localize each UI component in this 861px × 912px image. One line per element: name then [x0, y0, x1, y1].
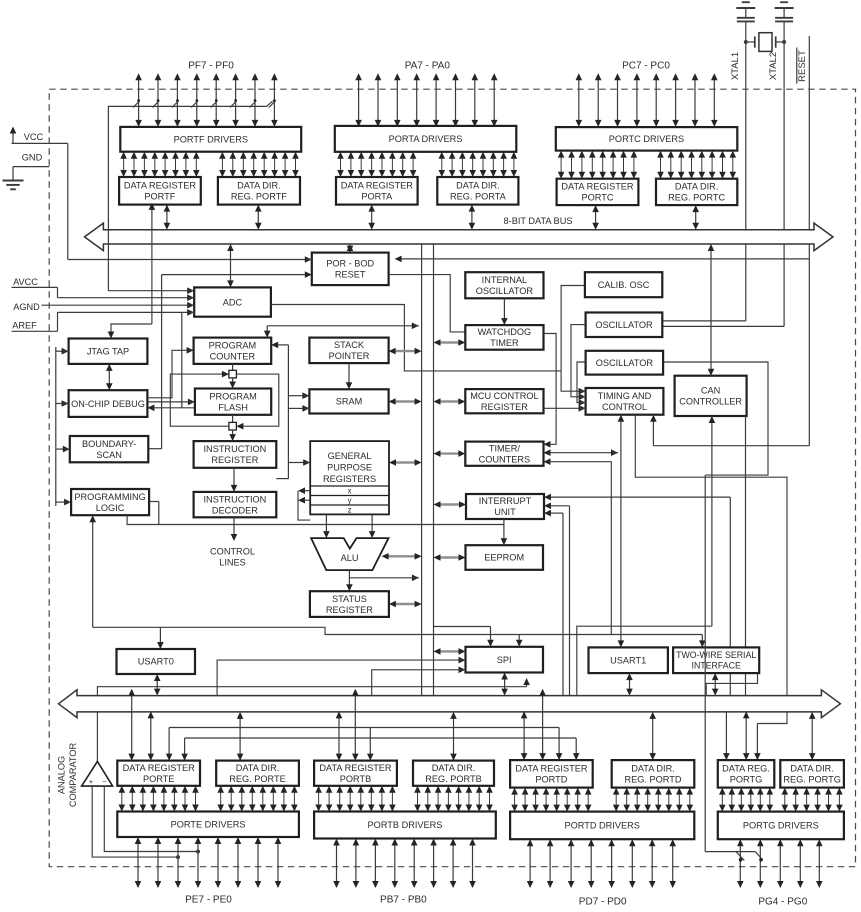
wire bus to data dir reg PORTB	[450, 712, 457, 761]
wire CAN controller to data bus	[745, 416, 747, 696]
POR-BOD reset	[312, 253, 389, 286]
data register PORTC	[557, 179, 639, 205]
svg-text:REGISTER: REGISTER	[326, 605, 373, 615]
svg-text:PG4 - PG0: PG4 - PG0	[758, 897, 807, 908]
wire XTAL2 to oscillator	[662, 42, 784, 326]
svg-text:MCU CONTROL: MCU CONTROL	[470, 391, 538, 401]
wire data bus to CAN controller serial	[577, 416, 715, 696]
wire serial control line (programming logic to CAN)	[93, 627, 706, 647]
SRAM	[309, 389, 388, 413]
data dir reg PORTF	[218, 177, 300, 205]
wire CPU internal bus right	[433, 244, 435, 696]
svg-text:REGISTERS: REGISTERS	[323, 474, 376, 484]
svg-text:AGND: AGND	[13, 302, 40, 312]
status register	[310, 591, 389, 617]
wire interrupt unit to cpu bus	[434, 501, 467, 508]
wire watchdog to timer/counters	[544, 334, 557, 448]
wire GPR to ALU inputs	[323, 514, 375, 538]
capacitor on XTAL2	[775, 2, 794, 42]
wire cpu bus to SPI top	[434, 627, 494, 647]
wire on-chip debug to program flash	[147, 399, 195, 406]
node PF7-PF0	[188, 60, 234, 71]
wire MCU control register to cpu bus	[434, 398, 466, 405]
wire PB pins	[333, 839, 476, 889]
wire VCC to POR-BOD	[67, 143, 69, 259]
USART0	[117, 649, 196, 674]
node PA7-PA0	[405, 60, 451, 71]
boundary-scan	[70, 436, 149, 462]
svg-text:INTERRUPT: INTERRUPT	[479, 496, 532, 506]
svg-text:TIMER/: TIMER/	[489, 443, 521, 453]
wire internal oscillator to watchdog	[501, 298, 508, 325]
wire flash to instruction register via latch	[229, 415, 237, 441]
svg-text:AREF: AREF	[12, 321, 37, 331]
svg-text:OSCILLATOR: OSCILLATOR	[596, 358, 654, 368]
wire on-chip debug to program counter	[147, 347, 193, 398]
wire boundary-scan to POR-BOD	[148, 271, 311, 448]
svg-text:PB7 - PB0: PB7 - PB0	[380, 895, 427, 906]
wire calib osc to timing and control	[561, 286, 586, 395]
wire JTAG TAP to on-chip debug	[106, 364, 113, 390]
svg-text:BOUNDARY-: BOUNDARY-	[82, 439, 136, 449]
wire oscillator to timing and control	[571, 325, 586, 401]
svg-text:DATA DIR.: DATA DIR.	[432, 763, 476, 773]
svg-text:XTAL2: XTAL2	[768, 52, 779, 80]
svg-text:REG. PORTC: REG. PORTC	[668, 193, 725, 203]
svg-text:POINTER: POINTER	[329, 351, 370, 361]
svg-text:DATA DIR.: DATA DIR.	[790, 764, 834, 774]
svg-text:z: z	[348, 506, 352, 515]
node PG4-PG0	[758, 897, 807, 908]
wire data register PORTE to drivers	[119, 786, 199, 812]
general purpose registers	[310, 441, 389, 514]
svg-text:8-BIT DATA BUS: 8-BIT DATA BUS	[504, 216, 573, 226]
node PD7-PD0	[579, 897, 627, 908]
wire data dir reg PORTG to drivers	[782, 788, 843, 812]
wire PG pins	[737, 839, 823, 888]
op-amp analog comparator	[82, 761, 113, 786]
data dir reg PORTB	[413, 761, 494, 786]
ALU	[311, 538, 388, 570]
svg-text:PORTE: PORTE	[143, 774, 174, 784]
wire stack pointer to cpu bus	[389, 348, 422, 355]
svg-text:STATUS: STATUS	[332, 594, 367, 604]
svg-text:OSCILLATOR: OSCILLATOR	[476, 286, 534, 296]
interrupt unit	[466, 494, 544, 519]
wire watchdog tie to POR-BOD	[389, 275, 466, 332]
PORTE drivers	[117, 812, 299, 838]
wire data dir reg PORTD to drivers	[613, 788, 693, 812]
oscillator (timer)	[586, 351, 664, 375]
wire AVCC to ADC	[58, 287, 195, 301]
EEPROM	[466, 545, 544, 570]
timer/counters	[465, 442, 543, 466]
svg-text:PD7 - PD0: PD7 - PD0	[579, 897, 627, 908]
svg-text:DATA DIR.: DATA DIR.	[631, 764, 675, 774]
wire PF pins	[135, 73, 277, 127]
node 8-BIT DATA BUS label	[504, 216, 573, 226]
wire bus to data reg PORTG	[723, 711, 749, 760]
wire reset into timing and control	[650, 415, 657, 446]
wire bus to POR-BOD	[347, 244, 354, 253]
svg-text:TIMER: TIMER	[490, 338, 519, 348]
ground symbol	[3, 181, 24, 190]
svg-text:GND: GND	[22, 153, 43, 163]
svg-text:COMPARATOR: COMPARATOR	[68, 742, 78, 807]
wire data register PORTC to bus	[592, 205, 599, 230]
svg-text:PORTA: PORTA	[361, 192, 393, 202]
two-wire serial interface	[673, 647, 759, 673]
wire interrupt unit to TWI	[544, 494, 730, 696]
svg-text:REGISTER: REGISTER	[481, 402, 528, 412]
USART1	[589, 647, 668, 673]
svg-text:PORTB: PORTB	[340, 774, 371, 784]
svg-text:CONTROLLER: CONTROLLER	[679, 397, 742, 407]
wire XTAL1 to oscillator	[662, 42, 746, 321]
wire PA pins	[355, 73, 497, 127]
svg-text:COUNTERS: COUNTERS	[479, 454, 531, 464]
wire stack pointer to SRAM	[346, 363, 353, 389]
wire bus to data dir reg PORTE	[237, 712, 244, 761]
svg-text:DATA DIR.: DATA DIR.	[456, 181, 500, 191]
wire USART1 to data bus	[626, 673, 633, 696]
svg-text:PORTA DRIVERS: PORTA DRIVERS	[389, 134, 463, 144]
svg-text:DATA DIR.: DATA DIR.	[236, 763, 280, 773]
wire PORTA drivers to data dir reg PORTA	[439, 152, 518, 177]
svg-text:LINES: LINES	[219, 558, 246, 568]
wire data dir reg PORTF to bus	[255, 205, 262, 230]
svg-text:+: +	[89, 777, 94, 786]
svg-text:DATA REGISTER: DATA REGISTER	[341, 181, 414, 191]
svg-text:x: x	[348, 487, 352, 496]
wire SRAM to cpu bus	[389, 398, 422, 405]
svg-text:PORTC: PORTC	[582, 193, 614, 203]
program flash	[195, 389, 271, 415]
node XTAL2	[768, 52, 779, 80]
wire status register to cpu bus	[389, 601, 422, 608]
svg-text:PORTG: PORTG	[730, 775, 763, 785]
wire PE pins	[135, 837, 282, 888]
oscillator (main)	[586, 313, 663, 338]
wire data dir reg PORTA to bus	[469, 205, 476, 230]
JTAG TAP	[69, 339, 148, 364]
svg-text:CALIB. OSC: CALIB. OSC	[598, 280, 650, 290]
svg-text:PROGRAM: PROGRAM	[209, 391, 256, 401]
svg-text:y: y	[348, 496, 352, 505]
instruction decoder	[194, 492, 277, 517]
wire interrupt unit line 2	[544, 503, 570, 696]
program counter	[194, 338, 272, 364]
svg-text:FLASH: FLASH	[218, 402, 248, 412]
wire analog comparator feeder	[97, 678, 530, 761]
wire bus to data register PORTD	[521, 689, 546, 760]
wire CPU internal bus left	[421, 244, 423, 696]
svg-text:PURPOSE: PURPOSE	[327, 463, 372, 473]
svg-text:PORTB DRIVERS: PORTB DRIVERS	[368, 820, 443, 830]
wire bus to data register PORTE	[128, 689, 154, 761]
wire programming logic from serial bus	[89, 515, 96, 627]
svg-text:SCAN: SCAN	[96, 450, 122, 460]
wire bus to data register PORTB	[336, 689, 359, 761]
svg-text:REG. PORTA: REG. PORTA	[450, 192, 507, 202]
PORTF drivers	[120, 127, 301, 152]
svg-text:DATA REGISTER: DATA REGISTER	[124, 181, 197, 191]
svg-text:WATCHDOG: WATCHDOG	[478, 327, 532, 337]
wire decoder to control lines	[231, 517, 238, 541]
8-bit data bus (bottom)	[59, 690, 841, 718]
data dir reg PORTG	[780, 760, 844, 788]
wire alternate port function line 2	[181, 738, 579, 761]
svg-text:DATA DIR.: DATA DIR.	[675, 182, 719, 192]
svg-text:DECODER: DECODER	[212, 505, 258, 515]
svg-text:EEPROM: EEPROM	[484, 553, 524, 563]
data register PORTD	[510, 760, 593, 788]
svg-text:DATA REGISTER: DATA REGISTER	[319, 763, 392, 773]
chip boundary (dashed border)	[49, 89, 855, 867]
PORTB drivers	[314, 812, 496, 839]
svg-text:−: −	[102, 777, 107, 786]
node PC7-PC0	[622, 60, 670, 71]
MCU control register	[465, 389, 543, 413]
crystal between XTAL1 and XTAL2	[744, 33, 786, 52]
svg-text:PE7 - PE0: PE7 - PE0	[185, 895, 232, 906]
wire programming logic right edge	[149, 502, 159, 525]
svg-text:SPI: SPI	[497, 655, 512, 665]
data register PORTF	[119, 177, 201, 205]
SPI	[466, 647, 544, 673]
data dir reg PORTC	[656, 179, 737, 205]
svg-text:PORTD DRIVERS: PORTD DRIVERS	[565, 821, 640, 831]
watchdog timer	[465, 325, 543, 350]
wire data register PORTF to bus 2	[164, 205, 171, 230]
svg-text:DATA DIR.: DATA DIR.	[237, 181, 281, 191]
wire PORTF drivers to data register PORTF	[120, 152, 199, 177]
svg-text:TIMING AND: TIMING AND	[598, 391, 652, 401]
capacitor on XTAL1	[736, 2, 755, 42]
svg-text:INTERNAL: INTERNAL	[482, 275, 527, 285]
wire debug data line	[181, 313, 183, 408]
wire AGND to ADC	[42, 302, 195, 309]
svg-text:STACK: STACK	[334, 340, 365, 350]
svg-text:ON-CHIP DEBUG: ON-CHIP DEBUG	[71, 399, 145, 409]
wire SPI inputs from data bus	[217, 657, 465, 696]
wire bus to data dir reg PORTG	[809, 712, 816, 760]
svg-text:OSCILLATOR: OSCILLATOR	[595, 320, 653, 330]
svg-text:PF7 - PF0: PF7 - PF0	[188, 60, 234, 71]
svg-text:DATA REG.: DATA REG.	[722, 764, 770, 774]
wire data dir reg PORTE to drivers	[217, 786, 297, 812]
data register PORTA	[336, 177, 418, 205]
wire alternate port function line 1	[166, 728, 563, 761]
svg-text:PROGRAM: PROGRAM	[209, 341, 256, 351]
wire interrupt unit to USART1	[544, 510, 563, 696]
svg-text:ANALOG: ANALOG	[57, 756, 67, 794]
wire data register PORTA to bus	[368, 205, 375, 230]
wire TWI to data bus 2	[706, 673, 757, 696]
wire timer oscillator to timing and control	[577, 362, 586, 406]
wire timing and control to PORTG register	[635, 415, 787, 760]
pull-up switch row on PORTF pins	[108, 99, 275, 107]
wire ADC output	[271, 305, 561, 371]
svg-text:USART0: USART0	[138, 657, 174, 667]
node PE7-PE0	[185, 895, 232, 906]
wire GPR X Y rows to Z pointer	[298, 487, 310, 520]
wire pull-up line into ADC	[108, 287, 194, 294]
data register PORTE	[117, 761, 200, 786]
wire watchdog to cpu bus	[434, 339, 466, 346]
svg-text:POR - BOD: POR - BOD	[326, 259, 374, 269]
svg-text:UNIT: UNIT	[494, 507, 516, 517]
wire comparator negative input to PE pin	[104, 786, 200, 853]
data dir reg PORTD	[612, 760, 695, 788]
wire instruction register to decoder	[231, 468, 238, 492]
svg-text:PA7 - PA0: PA7 - PA0	[405, 60, 451, 71]
programming logic	[71, 489, 149, 515]
wire bus to ADC	[227, 244, 234, 287]
svg-text:RESET: RESET	[797, 50, 808, 82]
wire USART0 to data bus	[154, 674, 161, 696]
svg-text:REG. PORTG: REG. PORTG	[783, 775, 841, 785]
wire program counter to flash via latch	[229, 364, 237, 389]
data dir reg PORTE	[216, 761, 299, 786]
svg-text:SRAM: SRAM	[336, 397, 363, 407]
svg-text:CAN: CAN	[701, 386, 720, 396]
wire flash bypass loop	[170, 371, 278, 430]
svg-text:CONTROL: CONTROL	[602, 402, 647, 412]
svg-text:REG. PORTB: REG. PORTB	[425, 774, 482, 784]
svg-text:DATA REGISTER: DATA REGISTER	[123, 763, 196, 773]
ADC	[194, 287, 271, 316]
node XTAL1	[730, 52, 741, 80]
wire pull-up row down left side	[107, 106, 109, 291]
wire timer/counters to serial line	[544, 458, 612, 634]
svg-text:DATA REGISTER: DATA REGISTER	[561, 182, 634, 192]
wire PORTC drivers to data register PORTC	[558, 151, 637, 179]
svg-text:XTAL1: XTAL1	[730, 52, 741, 80]
8-bit data bus (top)	[85, 223, 834, 251]
wire data register PORTF to bus / JTAG feeder	[108, 203, 156, 339]
svg-text:VCC: VCC	[24, 132, 44, 142]
svg-text:PROGRAMMING: PROGRAMMING	[74, 492, 145, 502]
wire ALU to cpu bus	[382, 553, 422, 560]
wire PORTC drivers to data dir reg PORTC	[657, 151, 736, 179]
svg-text:RESET: RESET	[335, 270, 366, 280]
svg-text:PORTF: PORTF	[144, 192, 175, 202]
svg-text:CONTROL: CONTROL	[210, 547, 255, 557]
svg-text:INTERFACE: INTERFACE	[692, 661, 741, 671]
PORTD drivers	[510, 812, 694, 840]
wire ALU to status register	[346, 571, 419, 591]
svg-text:USART1: USART1	[610, 656, 646, 666]
svg-text:INSTRUCTION: INSTRUCTION	[204, 494, 267, 504]
svg-text:PORTG DRIVERS: PORTG DRIVERS	[743, 821, 819, 831]
wire SRAM/GPR feeder from program counter	[271, 342, 310, 479]
VCC pin	[10, 127, 68, 144]
svg-text:PC7 - PC0: PC7 - PC0	[622, 60, 670, 71]
on-chip debug	[69, 390, 148, 417]
svg-text:LOGIC: LOGIC	[96, 503, 125, 513]
svg-text:PORTD: PORTD	[535, 775, 567, 785]
GND pin	[13, 153, 49, 181]
svg-text:REG. PORTE: REG. PORTE	[229, 774, 286, 784]
data dir reg PORTA	[437, 177, 518, 205]
svg-text:PORTF DRIVERS: PORTF DRIVERS	[174, 135, 248, 145]
wire AREF to ADC	[58, 309, 195, 331]
PORTC drivers	[556, 127, 738, 151]
wire comparator positive input to PE pin	[92, 786, 180, 859]
wire PD pins	[527, 839, 676, 888]
wire bus to data dir reg PORTD	[649, 712, 656, 760]
data register PORTB	[314, 761, 397, 786]
CAN controller	[675, 376, 747, 416]
internal oscillator	[465, 272, 543, 298]
wire TWI to data bus	[712, 673, 719, 696]
PORTA drivers	[335, 126, 517, 152]
node AVCC	[12, 277, 58, 288]
svg-text:ALU: ALU	[341, 553, 359, 563]
wire SPI to data bus	[501, 673, 508, 696]
svg-text:REGISTER: REGISTER	[211, 455, 258, 465]
svg-text:ADC: ADC	[223, 297, 243, 307]
svg-text:TWO-WIRE SERIAL: TWO-WIRE SERIAL	[676, 650, 756, 660]
wire serial line to SPI	[516, 634, 523, 647]
wire MCU control register to timing and control	[544, 405, 586, 412]
timing and control	[586, 388, 664, 415]
svg-text:REG. PORTD: REG. PORTD	[624, 775, 681, 785]
wire data dir reg PORTC to bus	[692, 205, 699, 230]
node CONTROL LINES	[210, 547, 255, 568]
svg-text:REG. PORTF: REG. PORTF	[231, 192, 287, 202]
node PB7-PB0	[380, 895, 427, 906]
wire cpu bus to program counter	[264, 323, 419, 338]
PORTG drivers	[718, 812, 844, 840]
analog comparator label	[57, 742, 79, 807]
svg-text:INSTRUCTION: INSTRUCTION	[204, 444, 267, 454]
wire interrupt unit to EEPROM	[127, 515, 507, 545]
wire RESET line	[395, 36, 810, 446]
data reg PORTG	[718, 760, 775, 788]
wire data reg PORTG to drivers	[719, 788, 773, 812]
node RESET (active low)	[797, 48, 808, 84]
wire VCC into POR-BOD	[68, 256, 312, 263]
wire data dir reg PORTB to drivers	[414, 786, 493, 812]
wire SPI to cpu bus	[434, 648, 466, 655]
svg-text:GENERAL: GENERAL	[328, 451, 372, 461]
wire timer/counters to cpu bus	[434, 450, 466, 457]
node AREF	[12, 321, 58, 332]
wire PC pins	[576, 73, 718, 127]
stack pointer	[309, 338, 388, 364]
svg-text:COUNTER: COUNTER	[210, 352, 256, 362]
instruction register	[194, 441, 277, 468]
wire data register PORTD to drivers	[511, 788, 591, 812]
svg-text:AVCC: AVCC	[13, 277, 38, 287]
wire PORTF drivers to data dir reg PORTF	[219, 152, 299, 177]
svg-text:DATA REGISTER: DATA REGISTER	[515, 764, 588, 774]
svg-text:PORTC DRIVERS: PORTC DRIVERS	[609, 134, 684, 144]
wire timer/counters to timing clock line	[544, 449, 619, 456]
wire program flash to on-chip debug	[147, 405, 195, 412]
wire left feeder to JTAG column	[56, 347, 71, 506]
wire timer oscillator switch to PG pins	[705, 475, 763, 861]
wire bus to CAN controller	[708, 244, 715, 376]
svg-text:JTAG TAP: JTAG TAP	[87, 346, 129, 356]
wire timer oscillator to TOSC pins	[663, 362, 768, 475]
wire EEPROM to cpu bus	[434, 554, 466, 561]
calibrated oscillator	[585, 272, 662, 297]
wire GPR to cpu bus	[389, 459, 422, 466]
svg-text:PORTE DRIVERS: PORTE DRIVERS	[171, 820, 246, 830]
